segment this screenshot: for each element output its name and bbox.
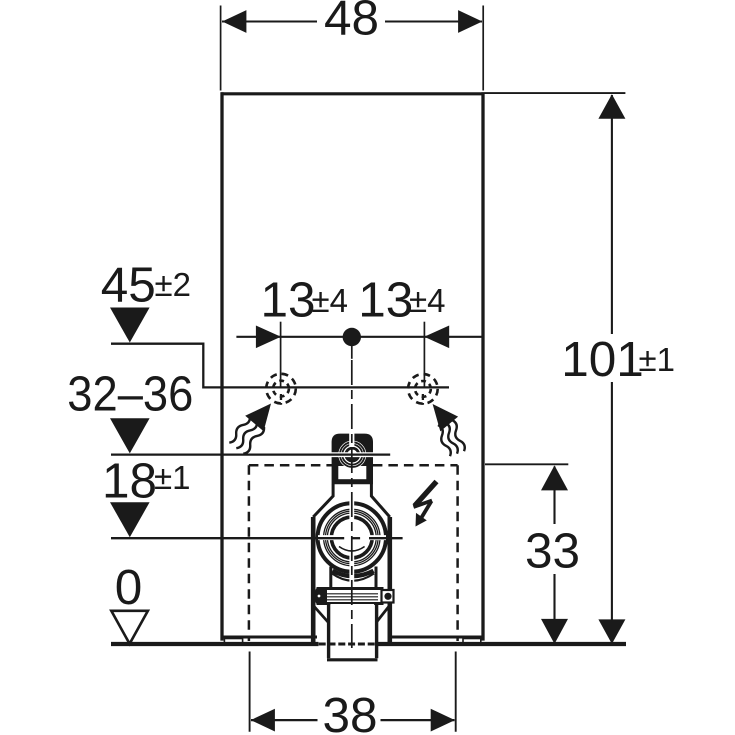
right water flow squiggle 2: [445, 423, 458, 454]
svg-text:32–36: 32–36: [67, 367, 193, 422]
dimension 13 arrowhead right pointing left: [424, 326, 449, 349]
svg-text:±4: ±4: [409, 282, 445, 319]
supply connector core bottom shade: [346, 456, 359, 463]
dimension 48 line right segment: [385, 20, 482, 22]
drain circle thin ring 1: [324, 509, 380, 565]
water supply left dashed circle outer: [266, 374, 296, 404]
pipe clamp right screw: [384, 593, 391, 600]
service area dashed rectangle left edge: [248, 465, 251, 641]
svg-text:±4: ±4: [312, 282, 348, 319]
level 18 marker triangle: [110, 502, 150, 537]
drain pipe left edge: [327, 604, 330, 659]
white casing vertical through rings top: [349, 495, 354, 522]
dimension 48 extension line right: [482, 6, 484, 91]
level 0 open triangle marker: [111, 611, 148, 644]
drain pipe white fill: [330, 604, 374, 658]
svg-text:101: 101: [561, 332, 644, 387]
water supply left center dash: [280, 394, 282, 405]
drain circle thin ring 3: [327, 513, 376, 562]
dimension 38 arrowhead right: [431, 709, 455, 732]
left water flow squiggle 1: [229, 416, 250, 443]
level 45 leader line with step: [111, 344, 449, 388]
svg-text:18: 18: [102, 454, 157, 509]
water supply right center dash: [422, 394, 424, 405]
white casing vertical through rings bottom: [349, 553, 354, 585]
dimension 101 extension line top: [485, 92, 626, 94]
dimension 33 extension line: [485, 463, 568, 465]
dimension 101 line lower segment: [611, 382, 613, 643]
svg-text:48: 48: [324, 0, 379, 46]
level 32-36 marker triangle: [110, 418, 150, 453]
svg-text:38: 38: [322, 688, 377, 735]
white casing vertical through cap: [349, 429, 354, 448]
dimension 101 line upper segment: [611, 95, 613, 334]
drain circle outer ring: [318, 503, 386, 571]
dimension 38 arrowhead left: [251, 709, 275, 732]
dimension 38 line right segment: [381, 719, 455, 721]
drain circle inner ring: [331, 517, 372, 558]
supply connector ring 2: [342, 445, 362, 465]
pipe clamp bar inner lines: [322, 594, 378, 600]
supply connector cap inner white rect: [338, 466, 366, 479]
right water flow arrow: [433, 404, 459, 431]
flush bend socket right upright: [375, 567, 378, 588]
dimension 13 center dot node: [343, 328, 361, 346]
dimension 38 line left segment: [251, 719, 318, 721]
dimension 101 arrowhead down: [598, 619, 625, 644]
panel left foot: [224, 639, 242, 644]
svg-text:13: 13: [260, 272, 315, 327]
water supply right dashed circle outer: [408, 374, 438, 404]
svg-text:45: 45: [101, 258, 156, 313]
dimension 48 extension line left: [220, 6, 222, 91]
pipe clamp bar body: [318, 589, 382, 604]
vertical centerline solid top: [351, 337, 353, 359]
right water flow squiggle 1: [438, 425, 451, 456]
white casing horizontal through rings right: [356, 535, 386, 540]
dimension 13 right extension line: [423, 322, 425, 388]
floor line dashed across pipe: [319, 643, 375, 646]
svg-text:0: 0: [115, 560, 143, 615]
level 45 marker triangle: [110, 308, 150, 343]
level 32-36 line: [111, 453, 390, 455]
dimension 48 arrowhead left: [222, 10, 246, 33]
left water flow squiggle 2: [236, 422, 257, 449]
panel right edge: [481, 92, 484, 640]
dimension 13 line: [236, 336, 484, 338]
white casing horizontal through rings left: [318, 535, 348, 540]
level 18 line right segment: [369, 537, 403, 539]
water supply left dashed circle inner: [273, 381, 289, 397]
flush bend socket thin seam arc: [332, 574, 374, 581]
panel right foot: [463, 639, 481, 644]
right water flow squiggle 3: [452, 420, 465, 451]
pipe clamp left cap highlight: [318, 595, 321, 598]
dimension 48 line left segment: [222, 20, 317, 22]
dimension 13 arrowhead left pointing right: [256, 326, 281, 349]
panel bottom edge right segment: [390, 636, 484, 639]
floor line right segment: [375, 642, 626, 646]
pipe clamp right box: [382, 590, 394, 603]
svg-text:33: 33: [525, 523, 580, 578]
flush bend socket thick seam arc: [333, 571, 374, 576]
dimension 33 line upper segment: [553, 467, 555, 525]
water supply right dashed circle inner: [415, 381, 431, 397]
dimension 38 extension line left: [249, 652, 251, 732]
pipe clamp left cap: [316, 588, 328, 605]
floor line left segment: [111, 642, 319, 646]
left water flow squiggle 3: [243, 427, 264, 454]
supply connector cap inner white circle: [338, 441, 366, 469]
dimension 13 left extension line: [280, 322, 282, 388]
supply connector ring 1: [340, 442, 365, 467]
svg-text:±1: ±1: [154, 459, 190, 496]
drain circle interior bottom arc: [339, 547, 365, 552]
dimension 101 arrowhead up: [598, 94, 625, 119]
panel bottom edge left segment: [221, 636, 317, 639]
svg-text:±2: ±2: [155, 266, 191, 303]
dimension 48 arrowhead right: [458, 10, 482, 33]
supply connector dark core ring: [346, 448, 359, 461]
flush bend neck right wall and shoulder: [371, 484, 389, 517]
drain pipe left chamfer: [314, 607, 328, 623]
dimension 38 extension line right: [455, 652, 457, 732]
drain pipe right edge: [375, 604, 378, 659]
flush bend socket left upright: [329, 567, 332, 588]
flush bend neck left wall and shoulder: [313, 484, 333, 517]
flush bend body left side: [311, 517, 316, 643]
flush bend body right side: [387, 517, 392, 643]
supply connector black cap: [332, 434, 373, 485]
drain pipe right chamfer: [376, 607, 389, 623]
level 18 line left segment: [111, 537, 344, 539]
panel left edge: [220, 92, 223, 640]
lightning bolt electrical symbol: [415, 482, 437, 507]
vertical centerline dashed: [351, 360, 353, 648]
service area dashed rectangle right edge: [456, 465, 459, 641]
dimension 33 arrowhead up: [541, 465, 568, 490]
dimension 33 line lower segment: [553, 574, 555, 643]
drain pipe bottom edge: [327, 658, 378, 661]
panel top edge: [221, 92, 485, 95]
drain circle thin ring 2: [326, 511, 379, 564]
white casing horizontal through cap: [329, 452, 376, 457]
left water flow arrow: [245, 404, 271, 432]
dimension 33 arrowhead down: [541, 619, 568, 644]
service area dashed rectangle top edge: [249, 464, 458, 467]
svg-text:±1: ±1: [639, 341, 675, 378]
svg-text:13: 13: [358, 272, 413, 327]
level 18 line center mark: [352, 537, 360, 539]
